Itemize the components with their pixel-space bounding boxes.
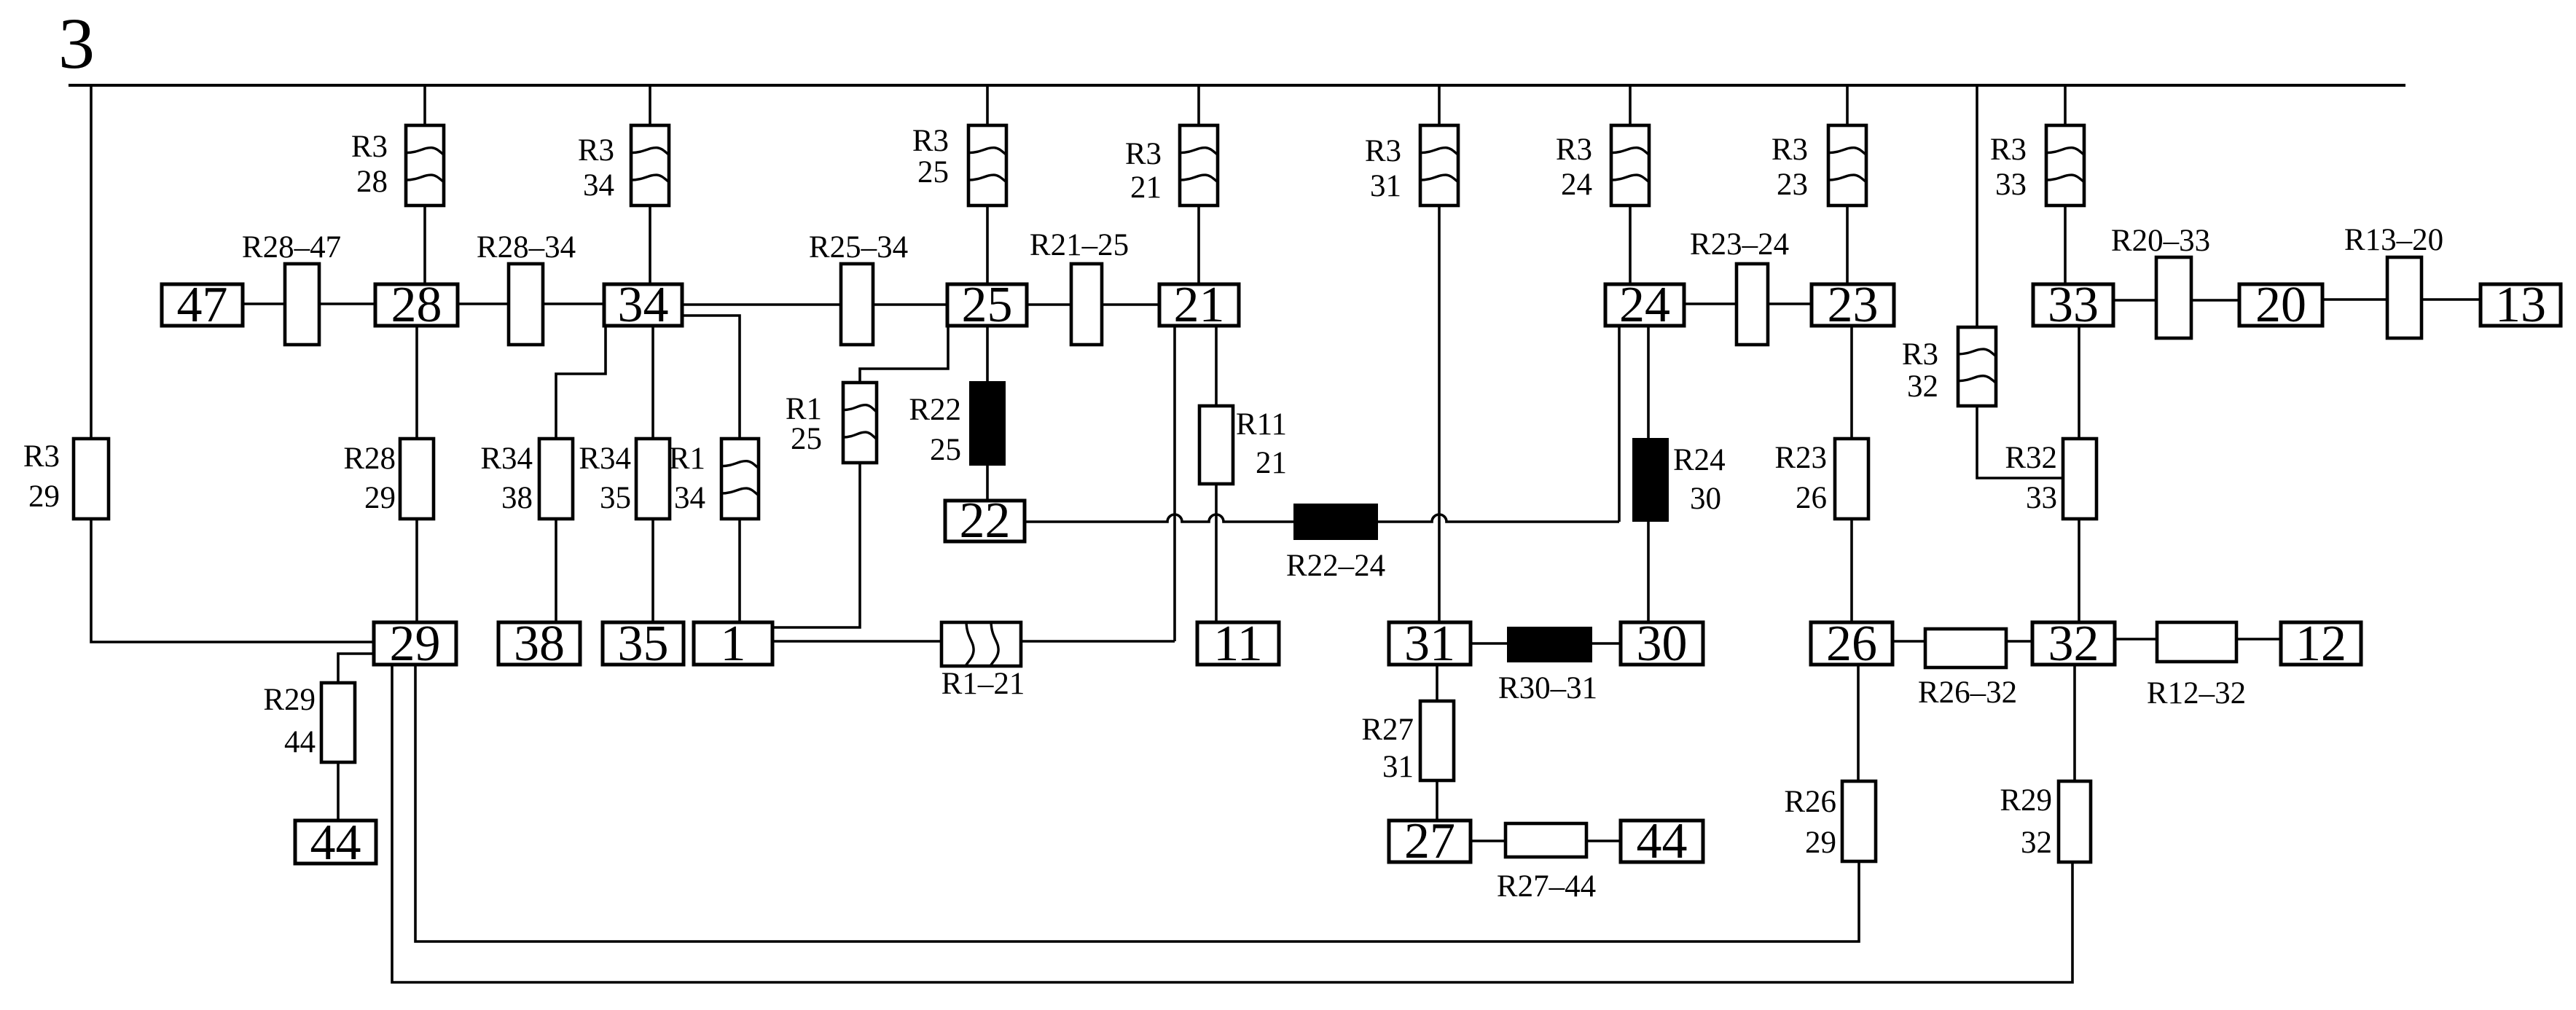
node 34 <box>604 277 682 333</box>
svg-text:R3: R3 <box>351 130 388 164</box>
node 38 <box>498 616 580 672</box>
wire bus to R3-25 <box>986 85 989 125</box>
resistor R1-21 <box>941 622 1025 701</box>
resistor R30-31 <box>1498 627 1597 705</box>
resistor R1 34 <box>669 439 759 519</box>
node 29 <box>374 616 456 672</box>
node 30 <box>1621 616 1703 672</box>
resistor R21-25 <box>1030 228 1129 345</box>
svg-text:32: 32 <box>2048 616 2099 672</box>
svg-text:R1–21: R1–21 <box>941 667 1025 701</box>
svg-text:34: 34 <box>618 277 669 333</box>
svg-text:R3: R3 <box>1125 137 1162 171</box>
svg-text:29: 29 <box>390 616 441 672</box>
wire R32-33 to node 32 <box>2078 519 2080 622</box>
svg-text:R1: R1 <box>669 442 705 476</box>
node 35 <box>603 616 684 672</box>
bus wire of node 3 <box>68 84 2405 87</box>
svg-text:21: 21 <box>1130 171 1162 205</box>
wire R34-38 to node 38 <box>555 519 557 622</box>
svg-text:33: 33 <box>2026 481 2057 515</box>
wire R27-44 to node 44 <box>1586 839 1621 842</box>
svg-text:R28–47: R28–47 <box>242 230 341 265</box>
wire node 29 to R26-29 (bottom link) <box>415 665 1859 942</box>
svg-text:31: 31 <box>1370 169 1401 203</box>
svg-text:26: 26 <box>1796 481 1827 515</box>
svg-text:R3: R3 <box>1990 133 2027 167</box>
svg-text:R26–32: R26–32 <box>1918 676 2017 710</box>
wire R3-28 to node 28 <box>423 205 426 284</box>
resistor R3 29 <box>23 439 109 519</box>
svg-text:25: 25 <box>791 422 822 456</box>
svg-text:R11: R11 <box>1236 407 1287 442</box>
svg-text:28: 28 <box>391 277 442 333</box>
svg-text:R1: R1 <box>786 392 822 426</box>
wire bus to R3-21 <box>1197 85 1200 125</box>
wire R3-24 to node 24 <box>1629 205 1632 284</box>
node 13 <box>2481 277 2561 333</box>
wire node 25 to R22-25 <box>986 326 989 382</box>
wire R3-33 to node 33 <box>2064 205 2067 284</box>
node 32 <box>2032 616 2115 672</box>
wire R11-21 to node 11 <box>1215 484 1218 622</box>
resistor R3 23 <box>1772 125 1866 205</box>
wire R28-29 to node 29 <box>415 519 418 622</box>
node 31 <box>1389 616 1471 672</box>
resistor R3 21 <box>1125 125 1218 205</box>
svg-text:47: 47 <box>177 277 228 333</box>
resistor R11 21 <box>1199 406 1287 484</box>
resistor R29 32 <box>2000 781 2091 862</box>
svg-text:23: 23 <box>1828 277 1879 333</box>
wire R1-25 to node 1 <box>772 463 860 627</box>
svg-text:28: 28 <box>356 165 388 199</box>
wire node 24 to R23-24 <box>1684 302 1737 305</box>
svg-text:22: 22 <box>960 493 1011 549</box>
svg-text:R20–33: R20–33 <box>2111 224 2210 258</box>
svg-text:21: 21 <box>1174 277 1225 333</box>
wire R3-21 to node 21 <box>1197 205 1200 284</box>
svg-text:R34: R34 <box>579 442 631 476</box>
resistor R24 30 <box>1633 439 1726 521</box>
wire R34-35 to node 35 <box>651 519 654 622</box>
wire R1-21 to node 21 drop <box>1021 640 1175 643</box>
wire node 33 to R20-33 <box>2113 299 2156 302</box>
wire node 26 to R26-32 <box>1892 640 1925 643</box>
resistor R28-47 <box>242 230 341 345</box>
svg-text:3: 3 <box>58 3 95 84</box>
wire R3-25 to node 25 <box>986 205 989 284</box>
resistor R34 35 <box>579 439 670 519</box>
node 23 <box>1812 277 1894 333</box>
svg-text:34: 34 <box>583 168 614 203</box>
wire bus to R3-32 <box>1976 85 1978 327</box>
wire node 21 to node 21 junction <box>1173 326 1176 641</box>
svg-text:R29: R29 <box>2000 783 2052 818</box>
wire bus to R3-29 <box>90 85 93 439</box>
svg-text:33: 33 <box>1995 168 2027 202</box>
svg-text:1: 1 <box>721 616 746 672</box>
wire node 28 to R28-34 <box>458 302 509 305</box>
resistor R29 44 <box>263 683 355 762</box>
resistor R34 38 <box>480 439 573 519</box>
wire R24-30 to node 30 <box>1647 521 1650 622</box>
resistor R3 33 <box>1990 125 2084 205</box>
svg-text:R23: R23 <box>1774 441 1827 475</box>
node 1 <box>694 616 772 672</box>
svg-text:R3: R3 <box>1902 337 1938 372</box>
wire R28-34 to node 34 <box>543 302 604 305</box>
node 20 <box>2239 277 2322 333</box>
wire node 34 to R34-38 <box>556 326 606 439</box>
svg-text:R29: R29 <box>263 683 316 717</box>
svg-text:44: 44 <box>284 725 316 759</box>
resistor R3 32 <box>1902 327 1996 406</box>
svg-text:R3: R3 <box>1556 133 1592 167</box>
wire R23-24 to node 23 <box>1768 302 1812 305</box>
svg-text:33: 33 <box>2048 277 2099 333</box>
svg-text:24: 24 <box>1619 277 1670 333</box>
wire R28-47 to node 28 <box>319 302 375 305</box>
svg-text:31: 31 <box>1404 616 1455 672</box>
wire node 29 to R29-32 (bottom link) <box>392 665 2072 982</box>
svg-text:25: 25 <box>962 277 1013 333</box>
svg-text:R34: R34 <box>480 442 533 476</box>
wire node 24 to R22-24 wire <box>1618 326 1621 522</box>
resistor R20-33 <box>2111 224 2210 338</box>
svg-text:30: 30 <box>1690 482 1721 516</box>
resistor R23 26 <box>1774 439 1868 519</box>
wire node 31 to R27-31 <box>1436 665 1438 701</box>
svg-text:44: 44 <box>1637 813 1688 869</box>
wire node 27 to R27-44 <box>1471 839 1506 842</box>
wire node 29 to R29-44 <box>338 654 374 683</box>
wire R29-44 to node 44 <box>337 762 340 821</box>
svg-text:30: 30 <box>1637 616 1688 672</box>
resistor R3 24 <box>1556 125 1649 205</box>
resistor R23-24 <box>1690 227 1789 345</box>
svg-text:44: 44 <box>310 815 361 871</box>
resistor R25-34 <box>809 230 908 345</box>
svg-text:26: 26 <box>1826 616 1877 672</box>
svg-text:23: 23 <box>1777 168 1808 202</box>
svg-text:38: 38 <box>501 481 533 515</box>
resistor R28-34 <box>477 230 576 345</box>
wire node 1 to R1-21 <box>772 640 941 643</box>
svg-text:32: 32 <box>1907 369 1938 404</box>
svg-text:R28–34: R28–34 <box>477 230 576 265</box>
svg-text:R3: R3 <box>23 439 60 474</box>
wire R3-23 to node 23 <box>1846 205 1849 284</box>
svg-text:R26: R26 <box>1784 785 1836 819</box>
svg-text:13: 13 <box>2495 277 2546 333</box>
wire node 33 to R32-33 <box>2078 326 2080 439</box>
wire node 24 to R24-30 <box>1647 326 1650 439</box>
wire R1-34 to node 1 <box>738 519 741 622</box>
wire R13-20 to node 13 <box>2422 298 2481 301</box>
svg-text:R3: R3 <box>1365 134 1401 168</box>
svg-text:38: 38 <box>514 616 565 672</box>
node 44 right <box>1621 813 1703 869</box>
node 33 <box>2033 277 2113 333</box>
resistor R28 29 <box>343 439 434 519</box>
resistor R26 29 <box>1784 781 1876 861</box>
svg-text:12: 12 <box>2295 616 2346 672</box>
wire node 32 to R12-32 <box>2115 638 2157 641</box>
resistor R22 25 <box>909 382 1005 467</box>
node 12 <box>2281 616 2361 672</box>
svg-text:29: 29 <box>364 481 396 515</box>
svg-text:35: 35 <box>600 481 631 515</box>
wire node 25 to R21-25 <box>1027 303 1071 306</box>
resistor R3 31 <box>1365 125 1458 205</box>
svg-text:29: 29 <box>28 479 60 514</box>
node 3 label <box>58 3 95 84</box>
svg-text:R3: R3 <box>1772 133 1808 167</box>
svg-text:R22: R22 <box>909 393 961 427</box>
node 24 <box>1605 277 1684 333</box>
svg-text:24: 24 <box>1561 168 1592 202</box>
wire R20-33 to node 20 <box>2191 299 2239 302</box>
wire node 20 to R13-20 <box>2322 298 2387 301</box>
svg-text:R28: R28 <box>343 442 396 476</box>
wire node 47 to R28-47 <box>243 302 285 305</box>
node 27 <box>1389 813 1471 869</box>
wire node 28 to R28-29 <box>415 326 418 439</box>
wire bus to R3-28 <box>423 85 426 125</box>
svg-text:34: 34 <box>674 481 705 515</box>
svg-text:11: 11 <box>1213 616 1262 672</box>
svg-text:21: 21 <box>1256 446 1287 480</box>
svg-text:R12–32: R12–32 <box>2147 676 2246 710</box>
svg-text:R3: R3 <box>578 133 614 168</box>
wire R22-25 to node 22 <box>986 465 989 501</box>
resistor R22-24 <box>1286 504 1385 583</box>
wire node 25 to R1-25 <box>860 326 948 383</box>
svg-text:R27: R27 <box>1361 713 1414 747</box>
wire R3-34 to node 34 <box>649 205 651 284</box>
wire node 23 to R23-26 <box>1850 326 1853 439</box>
svg-text:25: 25 <box>930 433 961 467</box>
wire R3-29 to node 29 <box>91 519 374 642</box>
svg-text:R13–20: R13–20 <box>2344 223 2443 257</box>
wire R3-32 to R32-33 <box>1977 406 2063 478</box>
svg-text:R32: R32 <box>2005 441 2057 475</box>
svg-text:R3: R3 <box>912 124 949 158</box>
svg-text:25: 25 <box>917 155 949 189</box>
wire R30-31 to node 30 <box>1592 642 1621 645</box>
resistor R26-32 <box>1918 629 2017 710</box>
node 21 <box>1159 277 1239 333</box>
wire bus to R3-24 <box>1629 85 1632 125</box>
wire bus to R3-31 <box>1438 85 1441 125</box>
wire R23-26 to node 26 <box>1850 519 1853 622</box>
wire R21-25 to node 21 <box>1102 303 1159 306</box>
wire node 22 to node 24 (R22-24 link) <box>1025 514 1619 522</box>
wire R3-31 to node 31 <box>1438 205 1441 622</box>
svg-text:R25–34: R25–34 <box>809 230 908 265</box>
resistor R1 25 <box>786 383 877 463</box>
node 28 <box>375 277 458 333</box>
svg-text:35: 35 <box>618 616 669 672</box>
svg-text:R23–24: R23–24 <box>1690 227 1789 262</box>
resistor R3 28 <box>351 125 444 205</box>
wire node 34 to R25-34 <box>682 303 841 306</box>
wire node 31 to R30-31 <box>1471 642 1508 645</box>
node 47 <box>162 277 243 333</box>
node 44 left <box>295 815 376 871</box>
wire R12-32 to node 12 <box>2236 638 2281 641</box>
wire node 32 to R29-32 <box>2073 665 2076 781</box>
svg-text:20: 20 <box>2255 277 2306 333</box>
wire bus to R3-23 <box>1846 85 1849 125</box>
wire R25-34 to node 25 <box>873 303 947 306</box>
resistor R12-32 <box>2147 622 2246 710</box>
node 25 <box>947 277 1027 333</box>
node 11 <box>1197 616 1279 672</box>
svg-text:31: 31 <box>1382 750 1414 784</box>
svg-text:29: 29 <box>1805 826 1836 860</box>
node 22 <box>945 493 1025 549</box>
resistor R27-44 <box>1497 823 1596 904</box>
wire R27-31 to node 27 <box>1436 780 1438 821</box>
node 26 <box>1811 616 1892 672</box>
wire bus to R3-34 <box>649 85 651 125</box>
resistor R32 33 <box>2005 439 2097 519</box>
wire R26-32 to node 32 <box>2006 640 2032 643</box>
resistor R3 25 <box>912 124 1006 205</box>
svg-text:R27–44: R27–44 <box>1497 869 1596 904</box>
svg-text:R24: R24 <box>1673 443 1726 477</box>
resistor R27 31 <box>1361 701 1454 784</box>
resistor R3 34 <box>578 125 669 205</box>
svg-text:27: 27 <box>1404 813 1455 869</box>
wire node 26 to R26-29 <box>1857 665 1860 781</box>
svg-text:R21–25: R21–25 <box>1030 228 1129 262</box>
svg-text:R22–24: R22–24 <box>1286 549 1385 583</box>
wire node 34 to R34-35 <box>651 326 654 439</box>
svg-text:32: 32 <box>2021 826 2052 860</box>
svg-text:R30–31: R30–31 <box>1498 671 1597 705</box>
resistor R13-20 <box>2344 223 2443 338</box>
wire node 21 to R11-21 <box>1215 326 1218 406</box>
wire node 34 to R1-34 <box>682 316 740 439</box>
wire bus to R3-33 <box>2064 85 2067 125</box>
